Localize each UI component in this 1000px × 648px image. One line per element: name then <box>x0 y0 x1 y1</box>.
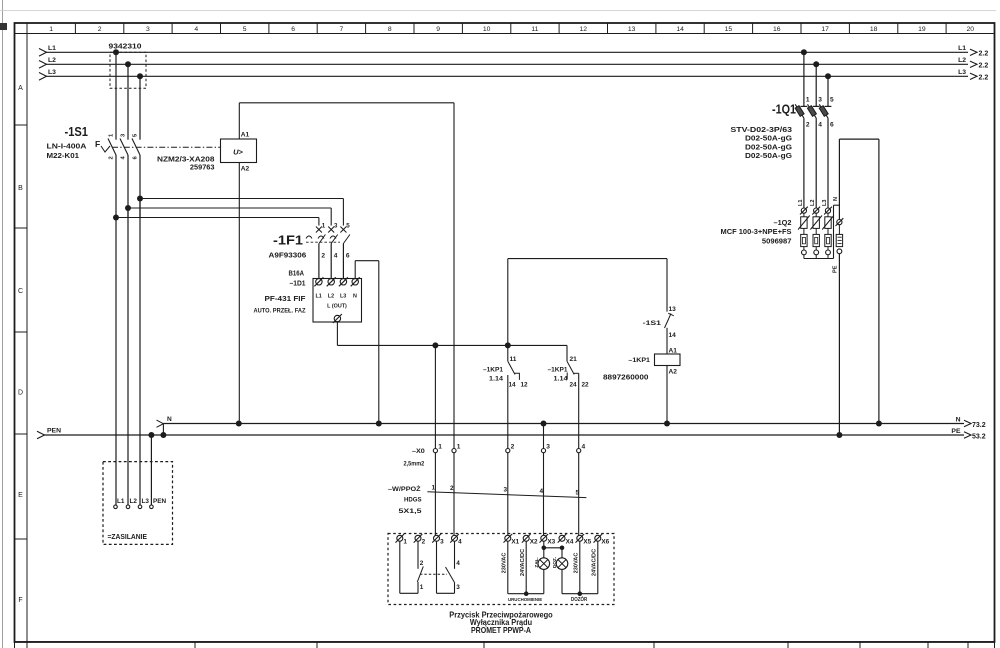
svg-text:2: 2 <box>420 560 424 567</box>
svg-text:A9F93306: A9F93306 <box>269 253 307 260</box>
wire below -X0:4 <box>578 453 580 538</box>
node N bus to lamp column <box>541 421 547 427</box>
PF-431 terminal L2 <box>327 277 336 286</box>
supply terminal L3 <box>138 505 142 509</box>
lamp circuit X5 column <box>579 541 581 593</box>
svg-text:–1KP1: –1KP1 <box>548 367 568 374</box>
pushbutton terminal X5 <box>576 534 585 543</box>
svg-text:-1F1: -1F1 <box>273 233 303 248</box>
wire U> A2 down to N bus <box>238 163 240 424</box>
pushbutton terminal X1 <box>504 534 513 543</box>
svg-text:=ZASILANIE: =ZASILANIE <box>108 532 148 541</box>
svg-text:5096987: 5096987 <box>762 238 792 245</box>
svg-text:1: 1 <box>432 484 436 491</box>
svg-text:PE: PE <box>951 428 961 435</box>
terminal -X0:1 <box>452 449 456 453</box>
PF-431 terminal L3 <box>339 277 348 286</box>
lamp circuit X6 column <box>597 541 599 593</box>
svg-text:6: 6 <box>830 122 834 129</box>
svg-text:5: 5 <box>830 97 834 104</box>
node A2-N <box>236 421 242 427</box>
pushbutton NC contact 1-2 <box>399 541 401 593</box>
svg-text:X4: X4 <box>566 539 574 546</box>
svg-text:24VAC/DC: 24VAC/DC <box>592 549 598 576</box>
node L2 tap <box>125 61 131 67</box>
svg-text:14: 14 <box>509 382 517 389</box>
node branch contactor feed <box>505 342 511 348</box>
fuse -1Q1 pole 5-6 <box>827 76 829 106</box>
svg-text:N: N <box>167 416 172 423</box>
svg-text:C: C <box>18 288 23 295</box>
svg-text:PE: PE <box>832 265 838 273</box>
PF-431 output terminal <box>333 314 342 323</box>
pushbutton terminal 2 <box>414 534 423 543</box>
breaker -1F1 actuator hook <box>306 236 312 239</box>
svg-text:13: 13 <box>669 306 677 313</box>
svg-text:4: 4 <box>582 443 586 450</box>
breaker -1F1 pole 5-6 contact <box>340 227 346 233</box>
svg-text:L2: L2 <box>328 294 334 300</box>
supply dashed box <box>103 462 173 545</box>
lamp circuit X2 column <box>525 541 527 593</box>
fuse -1Q1 pole 1-2 <box>803 52 805 106</box>
svg-text:M22-K01: M22-K01 <box>47 153 80 160</box>
svg-text:STV-D02-3P/63: STV-D02-3P/63 <box>730 127 792 134</box>
wire below -X0:1 <box>453 453 455 538</box>
node L3 tap <box>137 73 143 79</box>
svg-text:5X1,5: 5X1,5 <box>399 508 422 515</box>
top strip column dividers <box>74 23 76 34</box>
svg-text:–X0: –X0 <box>412 448 425 455</box>
svg-text:HDGS: HDGS <box>404 497 422 504</box>
node L2 right tap <box>813 61 819 67</box>
wire L1 drop <box>115 52 117 139</box>
svg-text:2: 2 <box>806 122 810 129</box>
svg-text:-1S1: -1S1 <box>643 320 662 327</box>
node L1 right tap <box>801 49 807 55</box>
svg-text:19: 19 <box>918 26 926 33</box>
svg-text:14: 14 <box>676 26 684 33</box>
supply terminal L2 <box>126 505 130 509</box>
pushbutton PROMET dashed box <box>388 534 614 605</box>
svg-text:ZAŁ.: ZAŁ. <box>534 557 539 567</box>
svg-text:2.2: 2.2 <box>979 63 989 70</box>
wire control branch over to -1S1 aux <box>507 259 509 346</box>
wire X3-X4 link <box>544 547 562 549</box>
svg-text:3: 3 <box>546 443 550 450</box>
svg-text:–1Q2: –1Q2 <box>774 218 792 227</box>
svg-text:20: 20 <box>967 26 975 33</box>
arrester common bottom bus <box>804 258 834 260</box>
svg-text:L1: L1 <box>48 45 56 52</box>
pushbutton terminal 3 <box>432 534 441 543</box>
top number strip line <box>15 33 995 35</box>
node coil at N bus <box>664 421 670 427</box>
svg-text:2: 2 <box>98 26 102 33</box>
node X5 bottom <box>578 591 583 596</box>
svg-text:3: 3 <box>818 97 822 104</box>
bus PEN/PE <box>44 434 964 436</box>
svg-text:X3: X3 <box>547 539 555 546</box>
bus N source arrow from PEN <box>162 424 164 436</box>
svg-text:L3: L3 <box>958 69 966 76</box>
switch -1S1 pole 1 contact <box>108 139 116 156</box>
svg-text:MCF 100-3+NPE+FS: MCF 100-3+NPE+FS <box>721 229 792 236</box>
svg-text:L2: L2 <box>48 57 56 64</box>
svg-text:12: 12 <box>521 382 529 389</box>
svg-text:2: 2 <box>108 156 114 159</box>
svg-text:D02-50A-gG: D02-50A-gG <box>745 153 793 160</box>
lamp DOZOR <box>561 548 563 558</box>
svg-text:1: 1 <box>49 26 53 33</box>
node PEN to N riser <box>160 432 166 438</box>
svg-text:L1: L1 <box>798 199 804 206</box>
supply terminal PEN <box>150 505 154 509</box>
svg-text:AUTO. PRZEŁ. FAZ: AUTO. PRZEŁ. FAZ <box>254 308 306 315</box>
node branch to X0-1 <box>432 342 438 348</box>
svg-text:L3: L3 <box>340 294 346 300</box>
bus N <box>163 423 964 425</box>
svg-text:2: 2 <box>321 252 325 259</box>
svg-text:16: 16 <box>773 26 781 33</box>
svg-text:1: 1 <box>420 584 424 591</box>
svg-text:24VAC/DC: 24VAC/DC <box>520 549 526 576</box>
svg-text:2.2: 2.2 <box>979 51 989 58</box>
svg-text:9: 9 <box>436 26 440 33</box>
node N riser at N bus <box>876 421 882 427</box>
svg-text:2: 2 <box>422 539 426 546</box>
wire L3 feed to -1F1 pole 5 <box>140 198 343 200</box>
svg-text:L1: L1 <box>117 498 125 505</box>
svg-text:15: 15 <box>725 26 733 33</box>
terminal -X0:3 <box>541 449 545 453</box>
wire L1 feed to -1F1 pole 1 <box>116 217 319 219</box>
svg-text:B16A: B16A <box>289 271 305 278</box>
svg-text:-1Q1: -1Q1 <box>772 102 796 117</box>
svg-text:3: 3 <box>334 223 338 230</box>
svg-text:1: 1 <box>438 443 442 450</box>
svg-text:1: 1 <box>806 97 810 104</box>
svg-text:L (OUT): L (OUT) <box>327 304 347 310</box>
svg-text:LN-I-400A: LN-I-400A <box>47 144 87 151</box>
PF-431 terminal L1 <box>314 277 323 286</box>
svg-text:11: 11 <box>531 26 538 33</box>
pushbutton terminal 1 <box>396 534 405 543</box>
wire L3 drop <box>139 76 141 139</box>
svg-text:230VAC: 230VAC <box>502 553 508 574</box>
svg-text:4: 4 <box>334 252 338 259</box>
svg-text:–1KP1: –1KP1 <box>483 367 503 374</box>
svg-text:F: F <box>18 597 22 604</box>
bus L1 <box>46 51 968 53</box>
contact -1KP1 21-24/22 <box>566 345 568 361</box>
bus L3 left arrow <box>39 73 47 81</box>
switch -1S1 linkage dash-dot line to trip unit <box>112 146 220 148</box>
svg-text:21: 21 <box>570 356 578 363</box>
left strip row dividers <box>15 124 28 126</box>
svg-text:5: 5 <box>346 223 350 230</box>
svg-text:L2: L2 <box>958 57 966 64</box>
breaker -1F1 linkage dashes <box>306 241 340 243</box>
svg-text:1: 1 <box>403 539 407 546</box>
svg-text:4: 4 <box>818 122 822 129</box>
svg-text:1.14: 1.14 <box>489 376 503 383</box>
supply terminal L1 <box>114 505 118 509</box>
svg-text:230VAC: 230VAC <box>574 553 580 574</box>
pushbutton terminal X4 <box>558 534 567 543</box>
wire lamp group 2 bottom <box>562 593 598 595</box>
bottom title strip line <box>15 641 995 643</box>
bottom strip dividers <box>14 642 16 648</box>
wire below -X0:3 <box>543 453 545 538</box>
svg-text:L3: L3 <box>822 199 828 206</box>
svg-text:3: 3 <box>504 487 508 494</box>
svg-text:-1S1: -1S1 <box>65 124 89 139</box>
wire U> A1 up and over to X0 <box>238 103 240 139</box>
node PF-431 N at N bus <box>376 421 382 427</box>
svg-text:L2: L2 <box>810 199 816 206</box>
undervoltage release U> box <box>221 139 257 163</box>
bus L3 <box>46 75 968 77</box>
svg-text:8897260000: 8897260000 <box>603 375 649 382</box>
node L2 feed tap <box>125 205 131 211</box>
pushbutton terminal 4 <box>450 534 459 543</box>
dashed outline around tap <box>110 52 146 88</box>
svg-text:3: 3 <box>456 584 460 591</box>
svg-text:X6: X6 <box>601 539 609 546</box>
pushbutton NO contact 3-4 <box>436 541 438 593</box>
svg-text:3: 3 <box>146 26 150 33</box>
svg-text:PF-431 FIF: PF-431 FIF <box>265 296 307 303</box>
node L3 right tap <box>825 73 831 79</box>
wire N bus down to X0-3 <box>543 424 545 449</box>
node link X3 <box>542 546 547 551</box>
svg-text:18: 18 <box>870 26 878 33</box>
svg-text:259763: 259763 <box>190 164 215 171</box>
svg-text:–1D1: –1D1 <box>290 280 306 287</box>
fuse -1Q1 pole 3-4 <box>815 64 817 106</box>
phase switch PF-431 box <box>313 279 362 323</box>
contact -1KP1 11-14/12 <box>507 345 509 361</box>
svg-text:NZM2/3-XA208: NZM2/3-XA208 <box>157 157 215 164</box>
terminal -X0:2 <box>506 449 510 453</box>
svg-text:D02-50A-gG: D02-50A-gG <box>745 144 793 151</box>
svg-text:2,5mm2: 2,5mm2 <box>404 460 425 467</box>
node L1 feed tap <box>113 215 119 221</box>
pushbutton linkage dashes <box>420 573 447 575</box>
cable marker line <box>427 492 586 498</box>
svg-text:12: 12 <box>580 26 588 33</box>
svg-text:5: 5 <box>243 26 247 33</box>
svg-text:A: A <box>18 85 23 92</box>
svg-text:2: 2 <box>450 485 454 492</box>
svg-text:F: F <box>95 139 100 149</box>
svg-text:X1: X1 <box>511 539 519 546</box>
svg-text:24: 24 <box>570 382 578 389</box>
svg-text:U>: U> <box>233 148 243 157</box>
svg-text:7: 7 <box>340 26 344 33</box>
wire branch down to X0 terminal 1 <box>434 345 436 448</box>
svg-text:53.2: 53.2 <box>972 434 986 441</box>
svg-text:L1: L1 <box>958 45 966 52</box>
svg-text:B: B <box>18 185 23 192</box>
wire N from bus down to arrester <box>878 139 880 423</box>
svg-text:6: 6 <box>291 26 295 33</box>
svg-text:L3: L3 <box>142 498 150 505</box>
pushbutton terminal X6 <box>594 534 603 543</box>
lamp URUCHOMIENIE <box>543 541 545 558</box>
svg-text:L2: L2 <box>130 498 138 505</box>
svg-text:PEN: PEN <box>47 428 61 435</box>
wire lamp group 1 bottom <box>508 593 544 595</box>
wire PEN down to supply box <box>150 435 152 505</box>
svg-text:DOZ.: DOZ. <box>552 557 557 568</box>
bus L2 left arrow <box>39 61 47 69</box>
breaker -1F1 pole 3-4 contact <box>328 227 334 233</box>
svg-text:–1KP1: –1KP1 <box>628 357 650 364</box>
svg-text:D: D <box>18 390 23 397</box>
switch -1S1 pole 3 contact <box>132 139 140 156</box>
wire L2 drop <box>127 64 129 139</box>
svg-text:URUCHOMIENIE: URUCHOMIENIE <box>508 597 543 603</box>
wire below -X0:2 <box>507 453 509 538</box>
svg-text:2.2: 2.2 <box>979 75 989 82</box>
svg-text:11: 11 <box>510 356 517 363</box>
node PEN tap to supply <box>148 432 154 438</box>
svg-text:4: 4 <box>456 560 460 567</box>
terminal -X0:1 <box>433 449 437 453</box>
svg-text:L3: L3 <box>48 69 56 76</box>
page scan edge lines <box>2 0 4 648</box>
svg-text:2: 2 <box>511 443 515 450</box>
wire L2 feed to -1F1 pole 3 <box>128 207 331 209</box>
lamp circuit X1 column <box>507 541 509 593</box>
node L3 feed tap <box>137 196 143 202</box>
node X2 bottom <box>524 591 529 596</box>
svg-text:X2: X2 <box>530 539 538 546</box>
svg-text:22: 22 <box>582 382 590 389</box>
svg-text:5: 5 <box>576 489 580 496</box>
svg-text:A1: A1 <box>241 132 250 139</box>
left letter strip line <box>26 23 28 642</box>
svg-text:17: 17 <box>821 26 829 33</box>
svg-text:X5: X5 <box>583 539 591 546</box>
svg-text:PROMET PPWP-A: PROMET PPWP-A <box>471 626 531 635</box>
arrester N-PE spark gap <box>836 218 844 226</box>
svg-text:1.14: 1.14 <box>554 376 568 383</box>
svg-text:A2: A2 <box>241 166 250 173</box>
pushbutton terminal X3 <box>540 534 549 543</box>
svg-text:3: 3 <box>440 539 444 546</box>
svg-text:D02-50A-gG: D02-50A-gG <box>745 136 793 143</box>
svg-text:1: 1 <box>322 223 326 230</box>
wire below -X0:1 <box>434 453 436 538</box>
terminal -X0:4 <box>577 449 581 453</box>
bus L1 left arrow <box>39 49 47 57</box>
switch -1S1 pole 2 contact <box>120 139 128 156</box>
svg-text:N: N <box>353 294 357 300</box>
pushbutton terminal X2 <box>522 534 531 543</box>
node L1 tap <box>113 49 119 55</box>
wire PF-431 N terminal to N bus <box>354 261 356 279</box>
PF-431 terminal N <box>351 277 360 286</box>
svg-text:8: 8 <box>388 26 392 33</box>
svg-text:1: 1 <box>457 443 461 450</box>
svg-text:13: 13 <box>628 26 636 33</box>
svg-text:E: E <box>18 492 23 499</box>
svg-text:–W/PPOŻ: –W/PPOŻ <box>388 485 421 493</box>
svg-text:N: N <box>956 416 961 423</box>
svg-text:N: N <box>833 197 839 201</box>
svg-text:73.2: 73.2 <box>972 422 986 429</box>
bus L2 <box>46 63 968 65</box>
wire L3 down to supply box <box>139 199 141 506</box>
svg-text:L1: L1 <box>316 294 322 300</box>
svg-text:6: 6 <box>346 252 350 259</box>
svg-text:4: 4 <box>458 539 462 546</box>
svg-text:4: 4 <box>540 488 544 495</box>
svg-text:9342310: 9342310 <box>109 43 142 50</box>
wire L(OUT) down and right <box>336 322 338 346</box>
wire PE down to PE bus <box>838 254 840 435</box>
node PE at bus <box>836 432 842 438</box>
wire common riser to N <box>833 205 835 258</box>
svg-text:4: 4 <box>194 26 198 33</box>
svg-text:14: 14 <box>669 332 677 339</box>
svg-text:DOZÓR: DOZÓR <box>571 595 588 603</box>
wire L1 down to supply box <box>115 218 117 506</box>
breaker -1F1 pole 1-2 contact <box>316 227 322 233</box>
svg-text:A2: A2 <box>669 369 678 376</box>
svg-text:PEN: PEN <box>153 498 167 505</box>
wire L2 down to supply box <box>127 208 129 505</box>
node link X4 <box>560 546 565 551</box>
svg-text:10: 10 <box>483 26 491 33</box>
